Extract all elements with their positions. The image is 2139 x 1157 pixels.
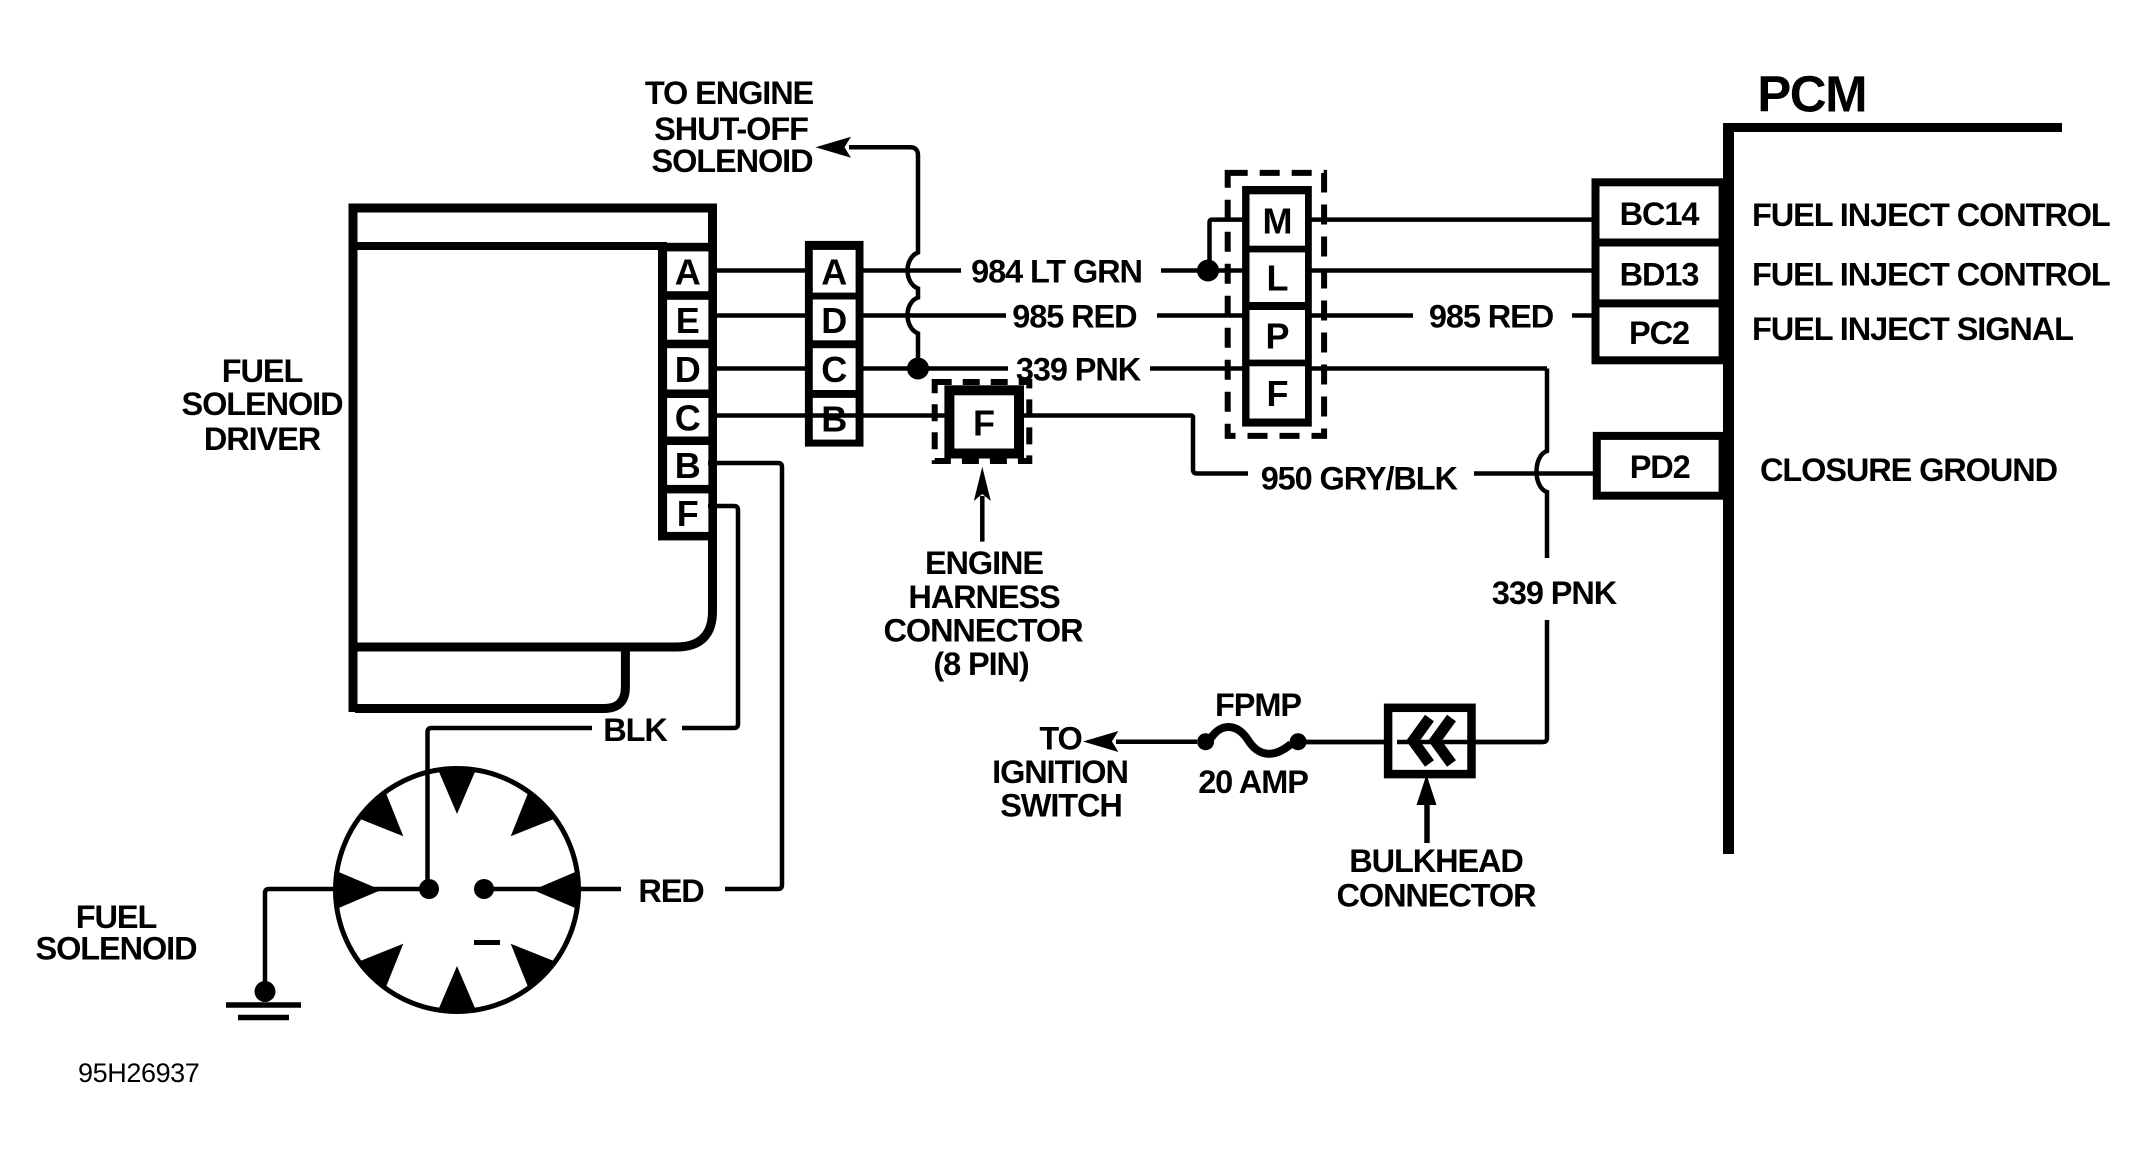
PCM terminal box PD2 (1597, 436, 1723, 496)
arrowhead to engine shut-off solenoid (816, 137, 851, 158)
wire L to BD13 (1309, 268, 1597, 273)
wires from M L P to PCM (1309, 220, 1598, 316)
solenoid terminal dot left (419, 879, 439, 899)
arrow up to bulkhead (1424, 800, 1430, 843)
svg-text:FUEL: FUEL (222, 353, 303, 389)
wedge 180 (335, 870, 381, 910)
svg-text:A: A (675, 252, 701, 293)
svg-text:M: M (1263, 201, 1293, 242)
svg-text:TO ENGINE: TO ENGINE (645, 75, 814, 111)
wire P to 985 RED label (1309, 313, 1413, 318)
wire B to harness connector (716, 413, 950, 418)
svg-text:B: B (675, 445, 701, 486)
svg-text:E: E (676, 300, 700, 341)
fuse FPMP 20 AMP (1197, 687, 1308, 800)
label FUEL SOLENOID DRIVER (182, 353, 344, 457)
339 PNK vertical with hop over 950 wire (1306, 369, 1547, 743)
driver box inner top line (353, 242, 667, 250)
svg-text:DRIVER: DRIVER (204, 421, 321, 457)
engine harness connector dashed outline (935, 382, 1030, 461)
arrowhead to ignition (1083, 731, 1118, 752)
wedge 45 (511, 789, 558, 836)
svg-text:985 RED: 985 RED (1429, 299, 1554, 335)
harness pin column body (805, 241, 864, 447)
arrowhead bulkhead (1417, 775, 1437, 806)
wire 950 GRY/BLK (1193, 416, 1248, 474)
wires between columns and to labels (716, 271, 1598, 474)
BLK wire from pin F down to solenoid (428, 506, 739, 889)
svg-text:D: D (821, 300, 847, 341)
fuse element FPMP (1211, 727, 1291, 754)
RED wire from pin B down to solenoid (484, 463, 782, 889)
driver pin column body (658, 243, 716, 541)
to engine shut-off solenoid arrow and wire with hops (849, 147, 918, 368)
label FUEL SOLENOID (36, 899, 198, 967)
svg-text:IGNITION: IGNITION (992, 754, 1128, 790)
svg-text:C: C (821, 349, 847, 390)
svg-text:FPMP: FPMP (1215, 687, 1301, 723)
svg-text:BD13: BD13 (1620, 257, 1699, 293)
arrowhead harness connector (974, 467, 991, 501)
wire 339 PNK (716, 366, 805, 371)
svg-text:BC14: BC14 (1620, 196, 1700, 232)
ground node dot (255, 981, 276, 1002)
svg-text:CLOSURE GROUND: CLOSURE GROUND (1760, 452, 2058, 488)
svg-text:FUEL INJECT CONTROL: FUEL INJECT CONTROL (1752, 197, 2110, 233)
wire labels row (971, 254, 1458, 497)
connector M L P F (1228, 173, 1324, 436)
stub to PC2 (1572, 313, 1598, 318)
svg-text:985 RED: 985 RED (1012, 299, 1137, 335)
label BULKHEAD CONNECTOR (1337, 843, 1537, 914)
junction node on 339 PNK (907, 358, 929, 380)
svg-text:D: D (675, 349, 701, 390)
svg-text:PCM: PCM (1757, 66, 1866, 123)
svg-text:339 PNK: 339 PNK (1016, 352, 1142, 388)
wedge 225 (356, 944, 403, 991)
svg-text:HARNESS: HARNESS (908, 579, 1060, 615)
svg-text:339 PNK: 339 PNK (1492, 575, 1618, 611)
svg-text:F: F (973, 403, 995, 444)
label ENGINE HARNESS CONNECTOR (8 PIN) (884, 545, 1084, 682)
ground symbol (226, 1002, 301, 1008)
label TO IGNITION SWITCH (992, 721, 1128, 824)
PCM top bar (1723, 123, 2062, 132)
svg-text:20 AMP: 20 AMP (1198, 764, 1308, 800)
svg-text:(8 PIN): (8 PIN) (933, 646, 1029, 682)
driver box lower lip (355, 649, 625, 709)
PCM vertical bar (1723, 123, 1734, 854)
fuel solenoid circle (336, 769, 579, 1012)
svg-text:SHUT-OFF: SHUT-OFF (654, 111, 808, 147)
wedge 315 (511, 944, 558, 991)
arrow up to harness connector (980, 496, 985, 542)
svg-text:BULKHEAD: BULKHEAD (1349, 843, 1523, 879)
svg-text:950 GRY/BLK: 950 GRY/BLK (1261, 461, 1459, 497)
wire (849, 147, 918, 368)
svg-text:CONNECTOR: CONNECTOR (884, 613, 1084, 649)
svg-text:FUEL INJECT SIGNAL: FUEL INJECT SIGNAL (1752, 311, 2073, 347)
svg-text:F: F (677, 493, 699, 534)
PCM terminal boxes BC14 BD13 PC2 (1596, 182, 1723, 360)
svg-text:L: L (1267, 258, 1289, 299)
svg-text:SOLENOID: SOLENOID (652, 143, 814, 179)
svg-text:PC2: PC2 (1629, 315, 1689, 351)
fuse terminal dot right (1290, 733, 1307, 750)
PCM pin function labels (1752, 197, 2110, 488)
svg-text:SOLENOID: SOLENOID (36, 931, 198, 967)
svg-text:BLK: BLK (603, 712, 668, 748)
solenoid terminal dot right (474, 879, 494, 899)
svg-text:FUEL INJECT CONTROL: FUEL INJECT CONTROL (1752, 257, 2110, 293)
terminal group box BC14/BD13/PC2 (1596, 182, 1723, 360)
wedge 0 (533, 870, 579, 910)
minus mark (474, 940, 500, 945)
terminal box PD2 (1597, 436, 1723, 496)
engine harness connector F (8 pin) (935, 382, 1030, 461)
wedge 270 (437, 966, 477, 1012)
svg-text:TO: TO (1039, 721, 1081, 757)
wire through bulkhead (1306, 740, 1384, 745)
wedge 135 (356, 789, 403, 836)
label TO ENGINE SHUT-OFF SOLENOID (645, 75, 814, 179)
wire from node up to M (1210, 220, 1246, 271)
connector MLPF dashed outline (1228, 173, 1324, 436)
svg-text:RED: RED (638, 873, 704, 909)
svg-text:95H26937: 95H26937 (78, 1058, 199, 1088)
svg-text:C: C (675, 398, 701, 439)
fuel solenoid driver box outline (353, 208, 713, 712)
svg-text:P: P (1265, 316, 1289, 357)
junction node on 984 LT GRN at L (1197, 260, 1219, 282)
bulkhead connector (1388, 708, 1471, 774)
svg-text:PD2: PD2 (1630, 449, 1690, 485)
connector column 1 (driver pins) (658, 243, 716, 541)
svg-text:SWITCH: SWITCH (1000, 788, 1122, 824)
svg-text:SOLENOID: SOLENOID (182, 386, 344, 422)
svg-text:984 LT GRN: 984 LT GRN (971, 254, 1142, 290)
svg-text:ENGINE: ENGINE (925, 545, 1043, 581)
bulkhead connector box (1388, 708, 1471, 774)
bulkhead chevrons (1413, 718, 1452, 764)
wire 985 RED (716, 313, 805, 318)
ground lead (265, 889, 429, 982)
fuse terminal dot left (1197, 733, 1214, 750)
svg-text:CONNECTOR: CONNECTOR (1337, 878, 1537, 914)
svg-text:B: B (821, 399, 847, 440)
connector column 2 (engine harness pins) (805, 241, 864, 447)
wire M to BC14 (1309, 217, 1597, 222)
svg-text:F: F (1267, 373, 1289, 414)
connector MLPF body (1242, 186, 1312, 427)
wire fuse to ignition arrow (1116, 739, 1197, 744)
svg-text:A: A (821, 252, 847, 293)
wedge 90 (437, 768, 477, 814)
wire 984 LT GRN (716, 268, 805, 273)
engine harness connector F box (949, 390, 1019, 453)
